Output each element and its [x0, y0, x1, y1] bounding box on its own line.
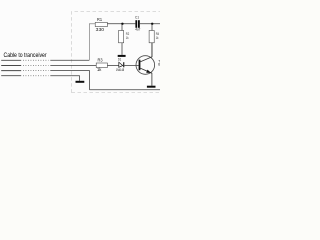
wire D1 to base: [124, 65, 138, 67]
wire 4 solid segment with stub down to ground: [50, 76, 79, 81]
junction node at R4: [151, 23, 153, 25]
wire 1 solid segment into box: [50, 59, 89, 61]
ground bar of R2: [118, 55, 126, 57]
wire 1 left solid segment: [1, 59, 21, 61]
bottom ground rail: [90, 89, 161, 91]
wire R3 to D1: [107, 65, 118, 67]
resistor R2 with leads: [121, 24, 123, 31]
svg-text:C1: C1: [135, 15, 139, 19]
wire 2 solid segment to R3: [50, 65, 96, 67]
capacitor C1 plates: [135, 20, 137, 28]
emitter arrowhead: [146, 70, 151, 73]
svg-text:4u7: 4u7: [135, 27, 140, 31]
wire 2 left solid segment: [1, 65, 21, 67]
svg-text:D1: D1: [118, 58, 121, 62]
resistor R1: [95, 22, 107, 26]
resistor R4 with leads: [151, 24, 153, 31]
wire 3 dotted cable segment: [23, 70, 49, 72]
svg-text:1k: 1k: [97, 67, 102, 73]
wire 3 left solid segment: [1, 70, 21, 72]
transistor T1 circle: [136, 56, 155, 75]
svg-text:Cable to tranceiver: Cable to tranceiver: [4, 52, 47, 59]
background: [0, 0, 160, 120]
svg-text:1k: 1k: [126, 36, 129, 40]
wire 3 solid segment and riser to bottom rail: [50, 71, 89, 90]
ground bar of wire 4: [76, 81, 85, 83]
wire 4 dotted cable segment: [23, 75, 49, 77]
transistor base bar: [139, 60, 141, 70]
ground bar of emitter: [147, 86, 156, 88]
enclosure dashed box (cropped at right edge): [72, 12, 161, 93]
top rail left section: [107, 23, 135, 25]
junction node at R2: [121, 23, 123, 25]
wire 2 dotted cable segment: [23, 65, 49, 67]
diode D1 cathode bar: [123, 62, 124, 67]
svg-text:R1: R1: [97, 17, 102, 23]
diode D1 triangle: [119, 62, 123, 67]
resistor R3: [96, 63, 107, 68]
emitter line down to ground: [140, 68, 152, 85]
collector line up to R4: [140, 43, 152, 62]
svg-text:1N4148: 1N4148: [116, 68, 124, 72]
wire 1 dotted cable segment: [23, 59, 49, 61]
svg-text:BC: BC: [158, 63, 160, 67]
svg-text:1k: 1k: [156, 36, 159, 40]
riser from wire 1 up to R1: [89, 24, 95, 61]
top rail right section: [140, 23, 160, 25]
wire 4 left solid segment: [1, 75, 21, 77]
svg-text:330: 330: [96, 27, 105, 33]
svg-text:R3: R3: [98, 58, 103, 64]
